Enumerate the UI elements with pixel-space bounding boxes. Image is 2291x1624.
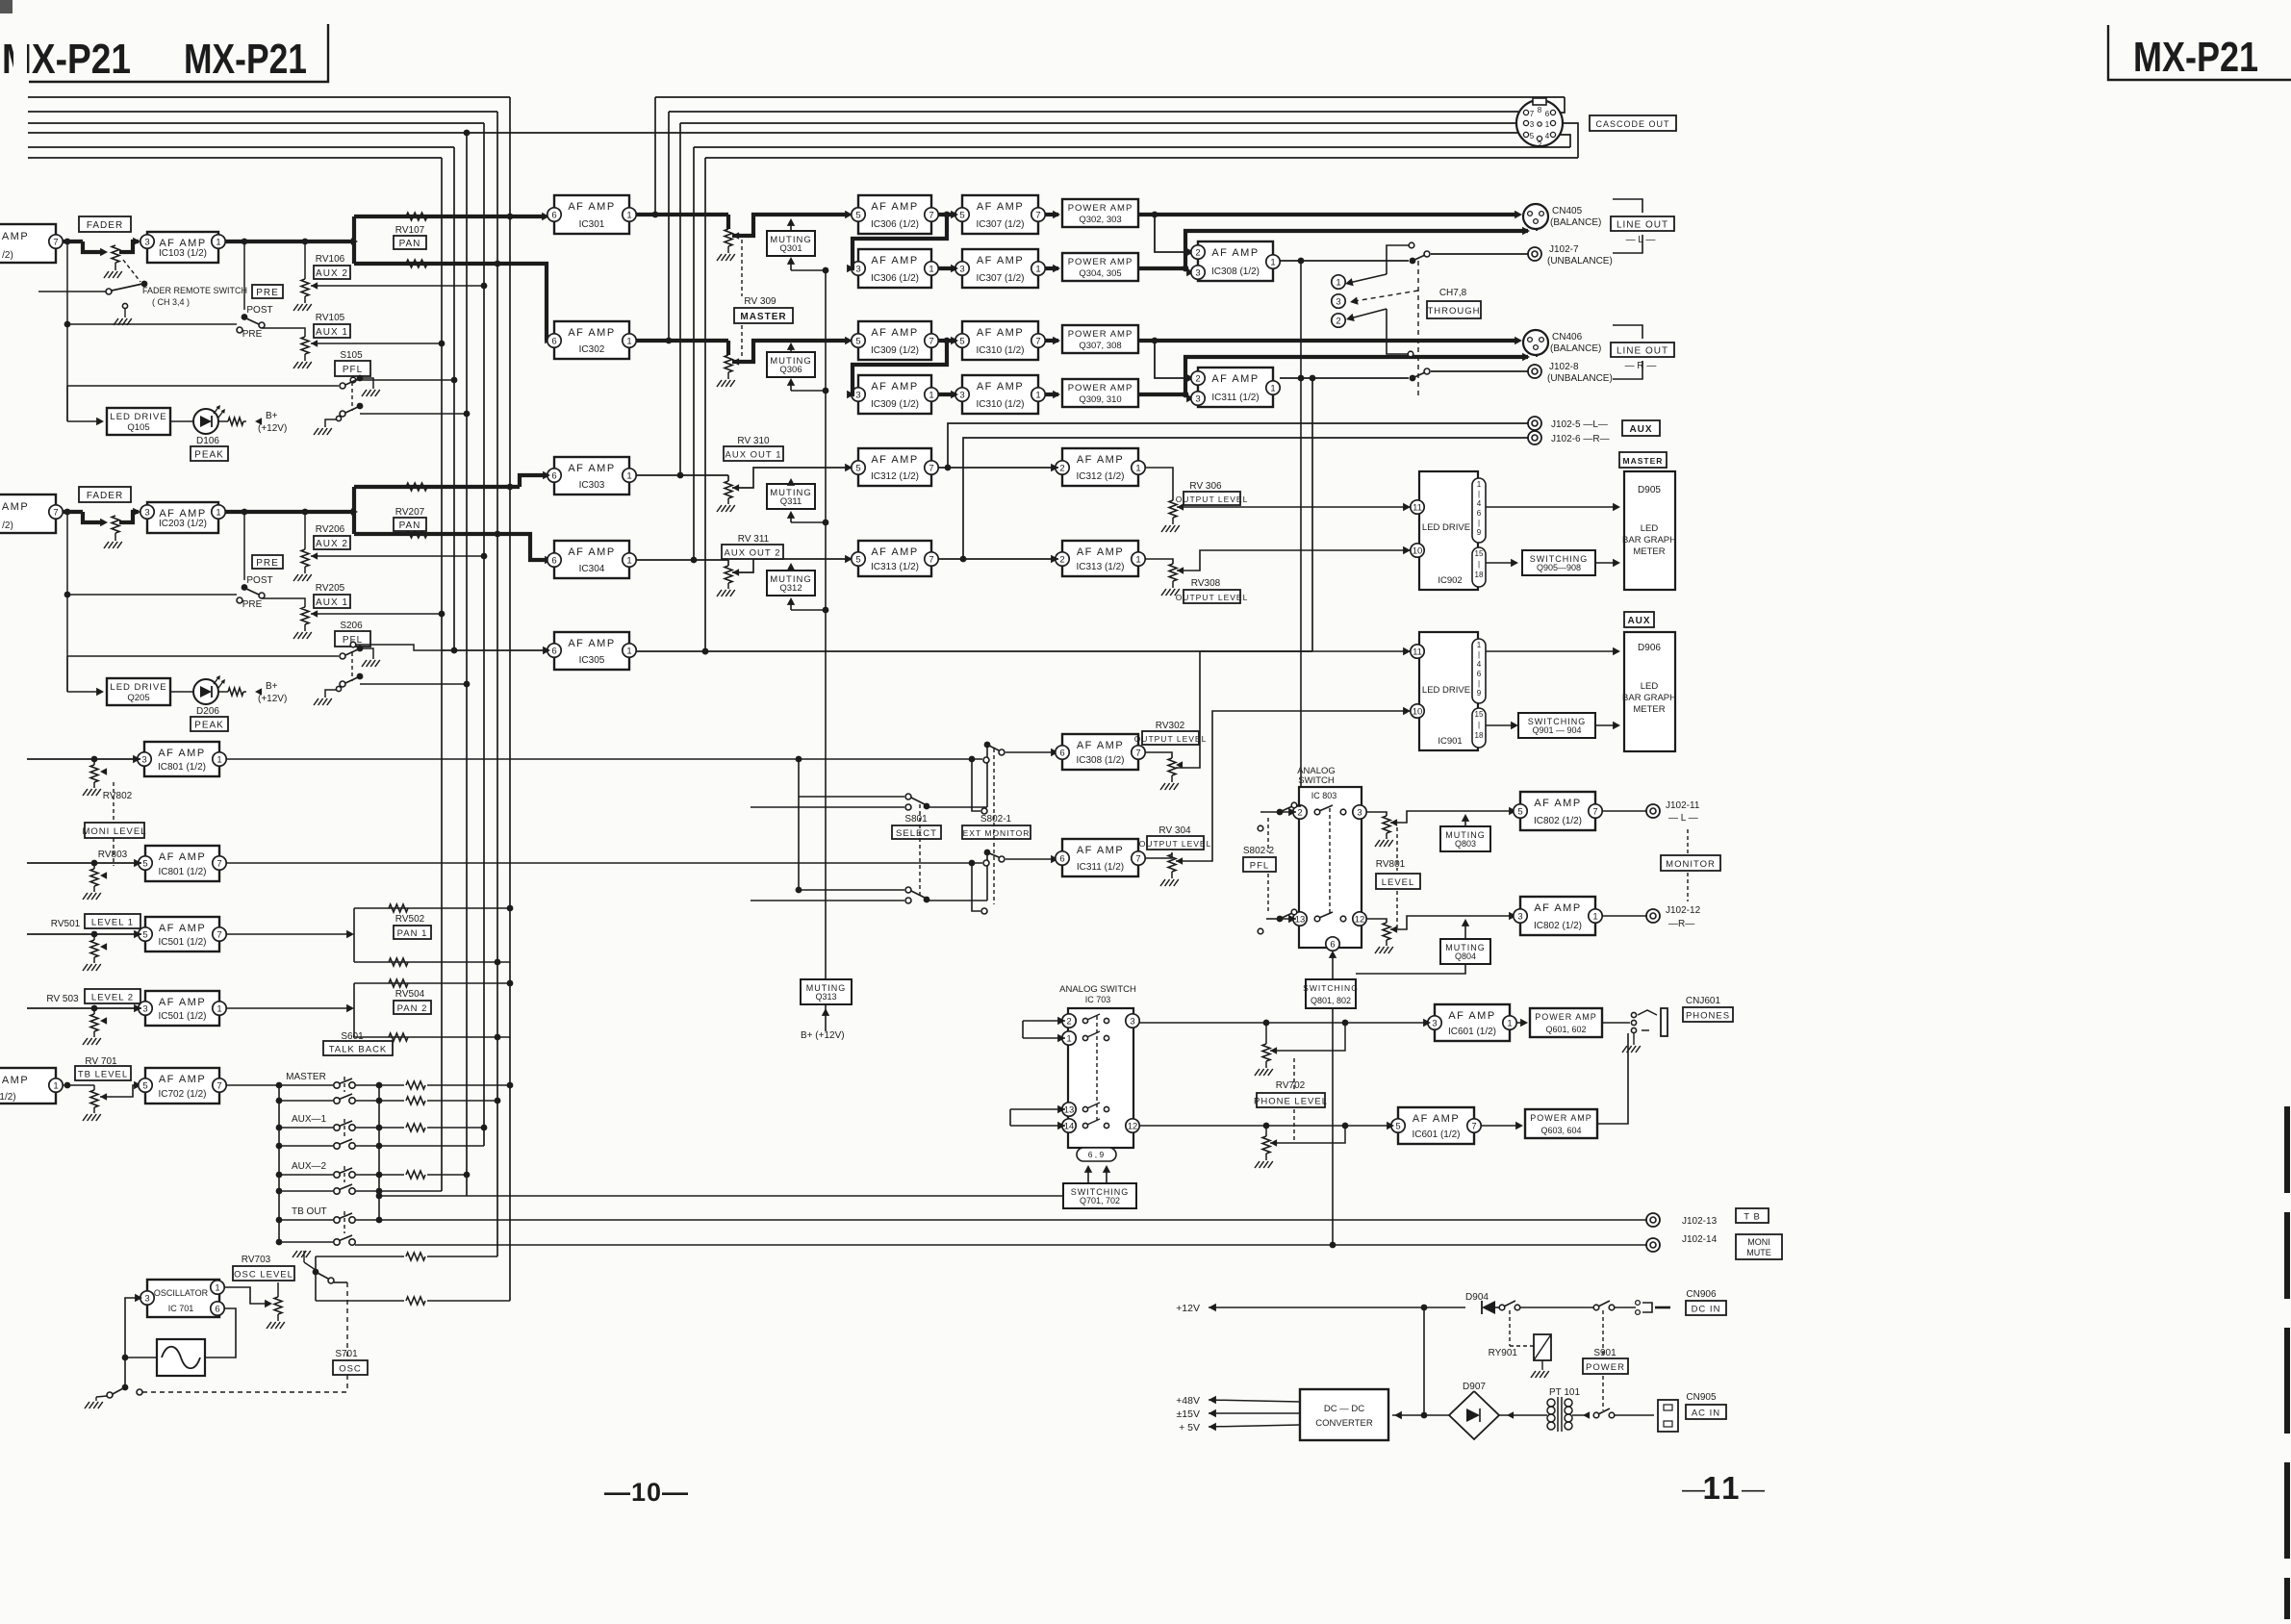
wire IC801a output to select bbox=[226, 758, 982, 760]
svg-text:OUTPUT LEVEL: OUTPUT LEVEL bbox=[1176, 495, 1249, 504]
switch S206 pole 2 bbox=[340, 681, 345, 687]
svg-text:IC311 (1/2): IC311 (1/2) bbox=[1077, 862, 1124, 873]
svg-text:AF AMP: AF AMP bbox=[159, 997, 206, 1008]
wire S601 feed vertical bbox=[278, 1085, 280, 1242]
svg-text:11: 11 bbox=[1703, 1470, 1743, 1506]
svg-text:RV106: RV106 bbox=[316, 254, 345, 265]
svg-text:|: | bbox=[1478, 519, 1480, 527]
svg-text:RV 306: RV 306 bbox=[1189, 481, 1222, 492]
block SWITCHING Q901-904 bbox=[1518, 713, 1595, 738]
svg-text:IC802 (1/2): IC802 (1/2) bbox=[1534, 921, 1582, 931]
svg-text:PEAK: PEAK bbox=[194, 449, 224, 460]
svg-text:IC902: IC902 bbox=[1438, 575, 1462, 586]
wire ic803 out to RV801 R bbox=[1366, 919, 1387, 923]
block AF AMP IC301 bbox=[554, 195, 629, 234]
wire Q307, 308 to XLR CN406 bbox=[1138, 339, 1518, 343]
svg-text:RV502: RV502 bbox=[395, 914, 425, 925]
svg-text:— R —: — R — bbox=[1625, 361, 1657, 371]
svg-text:IC304: IC304 bbox=[579, 564, 605, 574]
connector CN906 DC IN bbox=[1636, 1301, 1641, 1306]
svg-text:1: 1 bbox=[1035, 390, 1040, 400]
wire output of IC203 (1/2) bbox=[225, 510, 354, 514]
wire feed IC311 (1/2) bbox=[1155, 341, 1192, 378]
block MUTING Q301 bbox=[767, 231, 815, 256]
wire IC310 (1/2)a to Q307, 308 bbox=[1045, 339, 1058, 343]
wire IC306 (1/2)b to IC307 (1/2)b bbox=[938, 266, 956, 270]
svg-text:CN406: CN406 bbox=[1552, 332, 1583, 343]
wire IC307 (1/2)a to Q302, 303 bbox=[1045, 213, 1058, 216]
svg-text:D906: D906 bbox=[1638, 643, 1661, 653]
block AF AMP IC310 (1/2) a bbox=[962, 321, 1038, 360]
potentiometer RV503 bbox=[93, 1008, 95, 1014]
svg-text:IC311 (1/2): IC311 (1/2) bbox=[1211, 393, 1259, 403]
svg-text:LED DRIVE: LED DRIVE bbox=[110, 412, 166, 422]
svg-text:B+: B+ bbox=[266, 681, 278, 692]
wire monitor bus into S802-2 bbox=[1297, 805, 1301, 807]
svg-text:1: 1 bbox=[216, 507, 220, 518]
svg-text:IC501 (1/2): IC501 (1/2) bbox=[158, 1011, 206, 1022]
wire IC901 to D906 bbox=[1486, 650, 1616, 652]
potentiometer RV311 aux out 2 bbox=[636, 559, 728, 561]
switch S601 row 1144 bbox=[279, 1100, 333, 1102]
svg-text:5: 5 bbox=[855, 336, 860, 346]
svg-text:OUTPUT LEVEL: OUTPUT LEVEL bbox=[1134, 734, 1208, 744]
wire through dashed to circled 3 bbox=[1417, 261, 1419, 399]
wire monitor input b bbox=[27, 862, 141, 864]
svg-text:CN405: CN405 bbox=[1552, 206, 1583, 216]
pin pill IC703 6,9 bbox=[1077, 1148, 1116, 1161]
block AF AMP IC313 (1/2) a bbox=[858, 541, 931, 576]
node junction bus line 4 / vertical 485 bbox=[464, 130, 471, 137]
svg-text:AF AMP: AF AMP bbox=[977, 381, 1024, 393]
svg-text:SELECT: SELECT bbox=[896, 828, 937, 839]
wire switching Q701 feed line bbox=[379, 1195, 1063, 1197]
wire RV306 wiper to IC902 pin 11 bbox=[1177, 506, 1411, 508]
svg-text:|: | bbox=[1478, 490, 1480, 498]
svg-text:1: 1 bbox=[1135, 554, 1140, 565]
svg-text:CASCODE OUT: CASCODE OUT bbox=[1595, 119, 1669, 129]
block AF AMP IC302 bbox=[554, 321, 629, 359]
pan loop RV504 bbox=[353, 983, 355, 1037]
svg-text:AC IN: AC IN bbox=[1692, 1408, 1720, 1418]
svg-text:MONITOR: MONITOR bbox=[1666, 859, 1716, 870]
svg-text:D907: D907 bbox=[1463, 1382, 1486, 1392]
svg-text:(UNBALANCE): (UNBALANCE) bbox=[1547, 373, 1613, 384]
svg-text:AF AMP: AF AMP bbox=[871, 201, 918, 213]
switch S601 row 1221 bbox=[334, 1172, 340, 1178]
svg-text:RV803: RV803 bbox=[98, 850, 128, 860]
bracket LINE OUT — R — bbox=[1613, 325, 1642, 339]
svg-text:7: 7 bbox=[1035, 336, 1040, 346]
scan artifact top-left corner bbox=[0, 0, 13, 13]
svg-text:IC203 (1/2): IC203 (1/2) bbox=[159, 519, 207, 529]
svg-text:IC313 (1/2): IC313 (1/2) bbox=[1076, 562, 1124, 572]
svg-text:8: 8 bbox=[1538, 106, 1542, 114]
wire IC701 pin3 loop bbox=[125, 1298, 140, 1385]
svg-text:|: | bbox=[1478, 721, 1480, 729]
svg-text:4: 4 bbox=[1477, 660, 1482, 669]
svg-text:IC307 (1/2): IC307 (1/2) bbox=[976, 273, 1024, 284]
wire bus top-left group bbox=[28, 96, 510, 98]
svg-text:AF AMP: AF AMP bbox=[568, 546, 615, 558]
svg-text:AUX: AUX bbox=[1627, 616, 1650, 626]
svg-text:7: 7 bbox=[929, 336, 933, 346]
svg-text:MASTER: MASTER bbox=[740, 312, 786, 322]
svg-text:POWER AMP: POWER AMP bbox=[1068, 257, 1133, 267]
svg-text:18: 18 bbox=[1475, 571, 1484, 579]
svg-text:MX-P21: MX-P21 bbox=[184, 36, 307, 83]
block AF AMP IC601 (1/2) R bbox=[1398, 1107, 1474, 1144]
svg-text:(BALANCE): (BALANCE) bbox=[1550, 217, 1601, 228]
block MUTING Q312 bbox=[767, 571, 815, 596]
svg-text:3: 3 bbox=[144, 237, 149, 247]
svg-text:2: 2 bbox=[1538, 140, 1542, 149]
svg-text:1: 1 bbox=[53, 1080, 58, 1091]
switch S802-1 ext monitor pole 1 bbox=[984, 742, 991, 749]
block AF AMP IC203 (1/2) bbox=[147, 502, 218, 533]
pan loop bottom wire RV107 bbox=[354, 264, 548, 339]
svg-text:13: 13 bbox=[1064, 1104, 1075, 1115]
svg-text:AF AMP: AF AMP bbox=[1077, 546, 1124, 558]
svg-text:J102-8: J102-8 bbox=[1549, 362, 1579, 372]
svg-text:(+12V): (+12V) bbox=[258, 694, 287, 704]
pan loop RV107 bbox=[352, 216, 356, 264]
svg-text:IC313 (1/2): IC313 (1/2) bbox=[871, 562, 919, 572]
block LED DRIVE Q105 bbox=[107, 408, 170, 435]
wire RV205 feed bbox=[262, 598, 305, 607]
svg-text:1: 1 bbox=[1270, 383, 1275, 393]
block AF AMP IC305 bbox=[554, 632, 629, 670]
svg-text:AF AMP: AF AMP bbox=[871, 381, 918, 393]
svg-text:METER: METER bbox=[1633, 704, 1665, 715]
svg-text:5: 5 bbox=[855, 210, 860, 220]
svg-text:|: | bbox=[1478, 560, 1480, 569]
svg-text:AMP: AMP bbox=[2, 501, 29, 513]
svg-text:7: 7 bbox=[1135, 853, 1140, 864]
svg-text:Q603, 604: Q603, 604 bbox=[1540, 1126, 1581, 1135]
block AF AMP IC308 (1/2) bbox=[1198, 241, 1273, 281]
wire switching Q701 to IC703 pins 6,9 bbox=[1087, 1167, 1089, 1183]
terminal J102-6 bbox=[1528, 431, 1541, 444]
switch S801 select pole 2 bbox=[799, 889, 904, 891]
svg-text:14: 14 bbox=[1064, 1121, 1075, 1131]
label MONI MUTE bbox=[1736, 1234, 1782, 1259]
block AF AMP IC303 bbox=[554, 457, 629, 495]
svg-text:AF AMP: AF AMP bbox=[1077, 740, 1124, 751]
svg-text:1: 1 bbox=[929, 264, 933, 274]
switch S601 row 1291 bbox=[279, 1241, 333, 1243]
svg-text:IC601 (1/2): IC601 (1/2) bbox=[1448, 1027, 1496, 1037]
potentiometer RV802 bbox=[93, 759, 95, 765]
resistor to B+ for D106 bbox=[218, 420, 228, 422]
svg-text:1: 1 bbox=[626, 555, 631, 566]
switch S601 row 1172 bbox=[334, 1125, 340, 1130]
svg-text:IC312 (1/2): IC312 (1/2) bbox=[871, 471, 919, 482]
svg-text:PFL: PFL bbox=[343, 365, 363, 375]
pin pill IC902 1-4-6-9 bbox=[1472, 478, 1486, 543]
svg-text:Q901 — 904: Q901 — 904 bbox=[1532, 725, 1581, 735]
block AF AMP IC313 (1/2) b bbox=[1062, 541, 1138, 576]
LED diode D206 bbox=[193, 679, 218, 704]
block LED DRIVE Q205 bbox=[107, 678, 170, 705]
svg-text:Q701, 702: Q701, 702 bbox=[1080, 1196, 1120, 1205]
svg-text:RV206: RV206 bbox=[316, 524, 345, 535]
svg-text:PHONE LEVEL: PHONE LEVEL bbox=[1254, 1096, 1328, 1106]
svg-text:Q302, 303: Q302, 303 bbox=[1079, 215, 1121, 225]
wire crossover IC306 (1/2) bbox=[853, 215, 947, 268]
svg-text:1: 1 bbox=[1066, 1033, 1071, 1044]
svg-text:SWITCHING: SWITCHING bbox=[1303, 983, 1359, 993]
wire IC303 input jog from ch2 pan loop bbox=[520, 475, 545, 487]
svg-text:7: 7 bbox=[53, 237, 58, 247]
svg-text:S802-2: S802-2 bbox=[1243, 846, 1275, 856]
svg-text:IC702 (1/2): IC702 (1/2) bbox=[158, 1089, 206, 1100]
svg-text:RV501: RV501 bbox=[51, 919, 81, 929]
wire IC306 (1/2)a to IC307 (1/2)a bbox=[938, 213, 956, 216]
wire IC501b out to pan2 loop bbox=[226, 1007, 350, 1009]
potentiometer RV106 aux2 send bbox=[304, 241, 306, 279]
wire S601 row 1144 resistor to bus 517 bbox=[355, 1100, 379, 1102]
svg-text:1: 1 bbox=[1336, 277, 1340, 288]
svg-text:J102-6 —R—: J102-6 —R— bbox=[1551, 434, 1610, 444]
block AF AMP IC306 (1/2) b bbox=[858, 249, 931, 288]
svg-text:/2): /2) bbox=[2, 250, 13, 261]
svg-text:Q309, 310: Q309, 310 bbox=[1079, 394, 1121, 405]
block SWITCHING Q701,702 bbox=[1063, 1183, 1136, 1208]
node circled 2 bbox=[1332, 314, 1345, 327]
block MUTING Q306 bbox=[767, 352, 815, 377]
svg-text:IC601 (1/2): IC601 (1/2) bbox=[1412, 1129, 1460, 1140]
block AF AMP IC307 (1/2) a bbox=[962, 195, 1038, 234]
svg-text:RV 311: RV 311 bbox=[738, 534, 770, 545]
potentiometer RV309 master L bbox=[636, 213, 728, 216]
svg-text:S206: S206 bbox=[340, 621, 363, 631]
switch FADER REMOTE SWITCH bbox=[38, 291, 106, 292]
svg-text:+12V: +12V bbox=[1176, 1303, 1200, 1314]
svg-text:PHONES: PHONES bbox=[1686, 1010, 1730, 1021]
wire left bus bend verticals bbox=[509, 97, 511, 1301]
svg-text:RV 503: RV 503 bbox=[46, 994, 79, 1004]
svg-text:Q205: Q205 bbox=[127, 693, 149, 703]
svg-text:1: 1 bbox=[1270, 257, 1275, 267]
svg-text:RV702: RV702 bbox=[1276, 1080, 1306, 1091]
wire inputs to IC703 bbox=[1023, 1020, 1065, 1022]
block AF AMP IC304 bbox=[554, 541, 629, 578]
svg-text:IC 803: IC 803 bbox=[1311, 791, 1337, 800]
terminal J102-14 bbox=[1646, 1238, 1660, 1252]
block MUTING Q803 bbox=[1440, 826, 1490, 851]
XLR connector CN405 bbox=[1523, 204, 1548, 229]
svg-text:AUX—1: AUX—1 bbox=[292, 1114, 327, 1125]
wire to J102-12 bbox=[1602, 915, 1646, 917]
svg-text:Q313: Q313 bbox=[815, 992, 836, 1002]
svg-text:PEAK: PEAK bbox=[194, 720, 224, 730]
svg-text:AF AMP: AF AMP bbox=[977, 201, 1024, 213]
block AF AMP IC801 (1/2) b bbox=[145, 846, 219, 881]
svg-text:AF AMP: AF AMP bbox=[159, 1074, 206, 1085]
svg-text:(+12V): (+12V) bbox=[258, 423, 287, 434]
svg-text:IC312 (1/2): IC312 (1/2) bbox=[1076, 471, 1124, 482]
svg-text:IC309 (1/2): IC309 (1/2) bbox=[871, 345, 919, 356]
XLR connector CN406 bbox=[1523, 330, 1548, 355]
pin pill IC902 15-18 bbox=[1472, 547, 1486, 587]
svg-text:( CH 3,4 ): ( CH 3,4 ) bbox=[152, 297, 190, 307]
relay RY901 bbox=[1509, 1310, 1511, 1346]
svg-text:11: 11 bbox=[1413, 502, 1422, 513]
svg-text:S105: S105 bbox=[340, 350, 363, 361]
wire IC702 out to S601 bank bbox=[226, 1084, 333, 1086]
svg-text:B+ (+12V): B+ (+12V) bbox=[801, 1030, 845, 1041]
block AF AMP IC802 (1/2) L bbox=[1520, 792, 1595, 830]
wire bridge to DC-DC converter bbox=[1392, 1414, 1449, 1416]
wire Q309, 310 to XLR CN406 cold bbox=[1138, 393, 1185, 396]
svg-text:BAR GRAPH: BAR GRAPH bbox=[1622, 535, 1676, 546]
wire through NC contact pole 2 bbox=[1408, 351, 1413, 357]
wire feed IC308 (1/2) bbox=[1155, 215, 1192, 252]
svg-text:IC303: IC303 bbox=[579, 480, 605, 491]
svg-text:J102-11: J102-11 bbox=[1666, 800, 1700, 811]
label FADER IC203 (1/2) bbox=[79, 487, 131, 502]
svg-text:OUTPUT LEVEL: OUTPUT LEVEL bbox=[1139, 839, 1212, 849]
wire IC307 (1/2)b to Q304, 305 bbox=[1045, 266, 1058, 270]
svg-text:9: 9 bbox=[1477, 528, 1482, 537]
svg-text:7: 7 bbox=[929, 554, 933, 565]
switch CH7,8 through pole 1 bbox=[1410, 258, 1416, 265]
switch S105 pole 2 bbox=[340, 411, 345, 417]
svg-text:AUX—2: AUX—2 bbox=[292, 1161, 327, 1172]
svg-text:AF AMP: AF AMP bbox=[1448, 1010, 1495, 1022]
svg-text:6: 6 bbox=[1059, 748, 1064, 758]
block AF AMP IC802 (1/2) R bbox=[1520, 897, 1595, 935]
svg-text:IC307 (1/2): IC307 (1/2) bbox=[976, 219, 1024, 230]
svg-text:6 , 9: 6 , 9 bbox=[1088, 1150, 1105, 1159]
svg-text:/2): /2) bbox=[2, 520, 13, 531]
label LINE OUT — L — bbox=[1611, 216, 1674, 231]
svg-text:LED DRIVE: LED DRIVE bbox=[1422, 522, 1470, 533]
svg-text:6: 6 bbox=[551, 555, 556, 566]
switch S802-2 PFL pole 1 bbox=[1277, 809, 1284, 816]
block DC-DC CONVERTER bbox=[1300, 1389, 1388, 1440]
svg-text:1: 1 bbox=[215, 1282, 219, 1293]
wire IC902 to switching Q905-908 bbox=[1486, 562, 1515, 564]
svg-text:6: 6 bbox=[551, 210, 556, 220]
svg-text:AF AMP: AF AMP bbox=[871, 327, 918, 339]
fader potentiometer for IC103 (1/2) bbox=[112, 245, 119, 263]
svg-text:AF AMP: AF AMP bbox=[1077, 454, 1124, 466]
svg-text:3: 3 bbox=[1517, 911, 1522, 922]
svg-text:—10—: —10— bbox=[604, 1478, 689, 1507]
svg-text:J102-14: J102-14 bbox=[1682, 1234, 1718, 1245]
block MUTING Q804 bbox=[1440, 939, 1490, 964]
terminal J102-12 bbox=[1646, 909, 1660, 923]
svg-text:3: 3 bbox=[1195, 267, 1200, 278]
switch IC703 internal 4 bbox=[1082, 1123, 1087, 1128]
svg-text:CONVERTER: CONVERTER bbox=[1315, 1418, 1373, 1429]
svg-text:1: 1 bbox=[626, 646, 631, 656]
svg-text:THROUGH: THROUGH bbox=[1427, 306, 1480, 317]
svg-text:AUX 2: AUX 2 bbox=[316, 539, 348, 549]
wire IC305 input from PFL bus bbox=[443, 649, 547, 651]
svg-text:AUX 1: AUX 1 bbox=[316, 327, 348, 338]
label AUX meter bbox=[1624, 612, 1654, 627]
svg-text:POWER AMP: POWER AMP bbox=[1535, 1012, 1597, 1022]
wire S601 row 1128 resistor to bus 530 bbox=[355, 1084, 379, 1086]
wire power amp L to phone jack bbox=[1602, 1022, 1630, 1024]
svg-text:Q311: Q311 bbox=[780, 496, 802, 507]
svg-text:Q306: Q306 bbox=[779, 365, 802, 375]
svg-text:5: 5 bbox=[142, 929, 147, 940]
svg-text:Q312: Q312 bbox=[779, 583, 802, 594]
wire line samples to IC803 inputs bbox=[1280, 811, 1296, 813]
svg-text:LED: LED bbox=[1641, 681, 1659, 692]
svg-text:4: 4 bbox=[1545, 132, 1550, 140]
svg-text:5: 5 bbox=[1395, 1121, 1400, 1131]
svg-text:PAN: PAN bbox=[399, 239, 421, 249]
wire bus middle-right group bbox=[655, 96, 1565, 98]
svg-text:LINE OUT: LINE OUT bbox=[1616, 219, 1668, 230]
wire RV105 feed bbox=[262, 328, 305, 337]
svg-text:12: 12 bbox=[1128, 1121, 1138, 1131]
svg-text:Q301: Q301 bbox=[779, 243, 802, 254]
svg-text:AUX 1: AUX 1 bbox=[316, 597, 348, 608]
svg-text:5: 5 bbox=[142, 858, 147, 869]
svg-text:3: 3 bbox=[1432, 1018, 1437, 1028]
svg-text:— L —: — L — bbox=[1626, 235, 1656, 245]
label LINE OUT — R — bbox=[1611, 343, 1674, 357]
svg-text:Q804: Q804 bbox=[1455, 952, 1476, 961]
wire S601 row 1221 resistor to bus 485 bbox=[355, 1174, 379, 1176]
block AF AMP IC501 (1/2) a bbox=[145, 917, 219, 952]
svg-text:3: 3 bbox=[1130, 1016, 1134, 1027]
potentiometer RV701 TB level bbox=[63, 1084, 94, 1086]
svg-text:5: 5 bbox=[855, 463, 860, 473]
svg-text:D206: D206 bbox=[196, 706, 219, 717]
wire S801 pole2 output to S802-1 bbox=[927, 900, 987, 901]
switch S801 select pole 1 bbox=[799, 796, 904, 798]
svg-text:PRE: PRE bbox=[242, 329, 263, 340]
svg-text:OSC LEVEL: OSC LEVEL bbox=[234, 1269, 293, 1280]
block AF AMP IC306 (1/2) a bbox=[858, 195, 931, 234]
potentiometer RV803 bbox=[93, 863, 95, 869]
svg-text:PAN 2: PAN 2 bbox=[397, 1003, 428, 1014]
wire muting Q803/Q804 control bbox=[1356, 964, 1465, 974]
svg-text:6: 6 bbox=[551, 336, 556, 346]
wire osc resistor row 1306 bbox=[316, 1256, 404, 1257]
block AF AMP IC307 (1/2) b bbox=[962, 249, 1038, 288]
potentiometer RV702 phone level L bbox=[1265, 1023, 1267, 1044]
label MASTER meter bbox=[1619, 452, 1667, 468]
svg-text:AF AMP: AF AMP bbox=[977, 255, 1024, 266]
block AF AMP IC308 (1/2) monitor bbox=[1062, 734, 1138, 770]
svg-text:POWER AMP: POWER AMP bbox=[1068, 383, 1133, 393]
switch IC803 internal 1 bbox=[1314, 809, 1320, 815]
block D906 LED bar graph meter bbox=[1624, 632, 1675, 751]
wire through NC contact pole 1 bbox=[1409, 242, 1414, 248]
wire output of IC103 (1/2) bbox=[225, 240, 354, 243]
pin pill IC901 1-4-6-9 bbox=[1472, 639, 1486, 703]
svg-text:5: 5 bbox=[1517, 806, 1522, 817]
potentiometer RV308 output level bbox=[1145, 559, 1173, 564]
svg-text:5: 5 bbox=[959, 336, 964, 346]
svg-text:5: 5 bbox=[142, 1080, 147, 1091]
svg-text:5: 5 bbox=[1530, 132, 1535, 140]
wire level1 input bbox=[27, 933, 141, 935]
svg-text:LINE OUT: LINE OUT bbox=[1616, 345, 1668, 356]
block AF AMP IC309 (1/2) a bbox=[858, 321, 931, 360]
potentiometer RV309 master R bbox=[636, 339, 728, 343]
svg-text:1: 1 bbox=[216, 237, 220, 247]
svg-text:D904: D904 bbox=[1465, 1292, 1489, 1303]
